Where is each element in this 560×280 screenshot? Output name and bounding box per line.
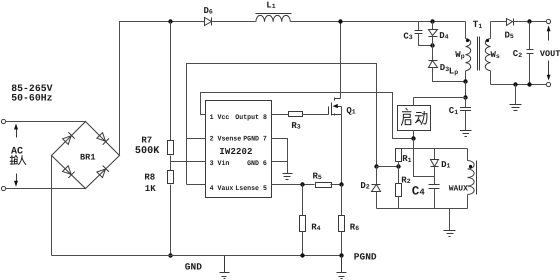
svg-text:50-60Hz: 50-60Hz	[11, 93, 52, 104]
resistor R4	[300, 216, 306, 232]
svg-text:WAUX: WAUX	[449, 184, 468, 193]
svg-text:PGND 7: PGND 7	[243, 136, 267, 144]
ground symbol (GND earth)	[220, 256, 230, 279]
wire: top rail left segment	[120, 21, 205, 23]
transistor Q1 (N-MOSFET)	[328, 107, 330, 115]
svg-text:GND 6: GND 6	[247, 160, 267, 168]
aux winding WAUX	[467, 149, 469, 161]
svg-text:Output 8: Output 8	[235, 114, 267, 122]
wire: C1 node to startup top	[414, 97, 466, 99]
capacitor C2	[529, 22, 531, 50]
svg-text:Lp: Lp	[449, 66, 458, 76]
wire: bottom ground rail	[52, 255, 342, 257]
wire: AC bottom line	[6, 188, 86, 190]
svg-text:1K: 1K	[145, 184, 156, 194]
node: PGND junction	[339, 253, 343, 257]
transformer T1 primary Wp	[465, 22, 467, 39]
node: startup/Vcc junction	[411, 136, 415, 140]
wire: junction down to D1 cathode node	[414, 139, 435, 177]
wire: R7 to R8	[170, 156, 172, 171]
wire: R4 branch	[302, 185, 304, 216]
bridge BR1 diamond	[52, 122, 120, 189]
wire: R4 to bottom rail	[302, 232, 304, 256]
wire: Lp node down to C1 node	[465, 82, 467, 98]
svg-text:D3: D3	[440, 63, 449, 73]
wire: Q1 drain up to top rail	[340, 22, 342, 99]
svg-text:D6: D6	[204, 6, 213, 16]
transformer core	[478, 37, 480, 71]
svg-text:AC: AC	[11, 146, 23, 157]
svg-text:VOUT: VOUT	[540, 49, 560, 59]
wire: bridge - output down to bottom rail	[51, 156, 53, 256]
node: WAUX phase dot	[469, 165, 472, 168]
wire: Q1 source down to Lsense node	[341, 107, 343, 185]
wire: pin 5 Lsense to R5	[272, 184, 315, 186]
diode D5	[507, 19, 514, 26]
diode D3 (points up)	[429, 61, 438, 68]
svg-text:R3: R3	[291, 121, 300, 131]
aux core	[476, 161, 478, 195]
svg-text:D2: D2	[360, 181, 369, 191]
node: R8 bottom rail junction	[168, 253, 172, 257]
svg-text:R8: R8	[144, 173, 155, 183]
wire: startup top to Vcc node	[413, 98, 415, 106]
diode D4 (points down)	[432, 22, 434, 30]
resistor R6	[339, 216, 345, 232]
svg-text:Wp: Wp	[455, 50, 464, 60]
node: C2 bottom junction	[527, 82, 531, 86]
svg-text:500K: 500K	[135, 146, 160, 157]
label 输入 (input)	[10, 155, 26, 164]
bridge diode (bottom-left edge, points SE)	[62, 165, 75, 178]
wire: R6 to PGND	[341, 232, 343, 256]
diode D6	[205, 18, 212, 26]
ground symbol (aux earth)	[449, 209, 451, 231]
wire: pin 8 to R3	[272, 114, 289, 116]
wire: top rail L1 to transformer	[291, 21, 466, 23]
VOUT- terminal	[546, 82, 550, 86]
startup block 启动	[398, 106, 431, 131]
wire: top rail D6 to L1	[212, 21, 256, 23]
svg-text:R6: R6	[350, 222, 359, 232]
svg-text:Lsense 5: Lsense 5	[235, 185, 267, 193]
capacitor C1	[465, 98, 467, 108]
op-amp U1 IW2202 body	[206, 101, 272, 198]
svg-text:R5: R5	[313, 171, 322, 181]
wire: bridge + output up to top rail	[120, 22, 121, 156]
wire: Ws top to D5	[491, 21, 507, 23]
wire: R8 down to bottom rail	[170, 185, 172, 256]
svg-text:4 Vaux: 4 Vaux	[210, 185, 234, 193]
arrow down (AC input marker)	[16, 174, 18, 183]
svg-text:Q1: Q1	[346, 106, 355, 116]
node: C2 top junction	[527, 19, 531, 23]
svg-text:BR1: BR1	[80, 153, 95, 163]
wire: tap to R2	[398, 167, 400, 184]
bridge diode (bottom-right edge, points NE)	[97, 165, 110, 178]
svg-text:R4: R4	[311, 222, 320, 232]
wire: R3 to Q1 gate	[303, 114, 329, 116]
wire: junction to R1/R2 divider tap	[377, 166, 399, 168]
svg-text:T1: T1	[473, 19, 483, 30]
node: R1/R2 tap junction	[396, 164, 400, 168]
AC terminal top	[1, 119, 5, 123]
node: Vsense/D2 junction	[374, 164, 378, 168]
svg-text:C2: C2	[513, 49, 522, 59]
svg-text:R7: R7	[141, 136, 152, 146]
svg-text:1 Vcc: 1 Vcc	[210, 114, 230, 122]
diode D2 (points up)	[376, 167, 378, 185]
node: Ws phase dot	[486, 39, 489, 42]
transformer T1 secondary Ws	[490, 22, 492, 39]
svg-text:D5: D5	[505, 30, 514, 40]
wire: aux return bottom edge	[377, 208, 468, 210]
node: C1 junction	[463, 95, 467, 99]
svg-text:L1: L1	[266, 0, 275, 10]
wire: startup bottom to junction	[413, 131, 415, 139]
wire: Vsense loop (pin2/pin4 up over IC to aux divider)	[187, 64, 377, 185]
wire: D3 anode to Lp bottom node	[433, 68, 466, 82]
wire: R5 to source node	[331, 184, 342, 186]
resistor R3	[289, 112, 303, 117]
wire: divider tap to pin 3 Vin	[171, 161, 206, 163]
node: C3/D4 junction	[430, 43, 434, 47]
wire: rail down to R7	[170, 22, 172, 141]
node: R4 top junction	[300, 182, 304, 186]
diode D1 (points down)	[434, 149, 436, 160]
wire: pin 2 Vsense stub	[187, 138, 206, 140]
node: R4 bottom junction	[300, 253, 304, 257]
ground symbol (secondary earth)	[515, 85, 517, 105]
ground symbol (C1 earth)	[460, 131, 472, 137]
resistor R1	[396, 149, 402, 162]
svg-text:D1: D1	[441, 160, 450, 170]
svg-text:R2: R2	[401, 175, 410, 185]
svg-text:C4: C4	[412, 184, 426, 198]
wire: R1 to tap	[398, 162, 400, 167]
resistor R2	[396, 184, 402, 197]
VOUT+ terminal	[546, 19, 550, 23]
wire: aux top edge	[396, 148, 468, 150]
svg-text:2 Vsense: 2 Vsense	[210, 136, 242, 144]
ground symbol (PGND earth)	[337, 256, 347, 279]
wire: D4 to D3	[432, 37, 434, 61]
capacitor C4	[434, 167, 436, 185]
wire: secondary bottom rail	[491, 84, 547, 86]
wire: pin 6 GND stub	[272, 161, 288, 163]
capacitor C3	[418, 22, 420, 31]
ground symbol (IC pins 6/7)	[283, 174, 293, 180]
arrow up (VOUT marker)	[548, 29, 550, 41]
bridge diode (top-right edge, points SE)	[97, 132, 110, 145]
wire: D5 to VOUT+	[514, 21, 547, 23]
arrow up (AC input marker)	[16, 129, 18, 138]
svg-text:R1: R1	[402, 154, 411, 164]
node: drain rail junction	[338, 19, 342, 23]
resistor R8	[168, 171, 174, 184]
wire: Vcc loop (pin1 over IC to startup node)	[201, 93, 414, 139]
svg-text:D4: D4	[439, 31, 448, 41]
wire: AC top line	[6, 121, 86, 123]
wire: pin 4 Vaux stub	[187, 184, 206, 186]
node: secondary ground junction	[513, 82, 517, 86]
svg-text:C1: C1	[449, 106, 458, 116]
svg-text:IW2202: IW2202	[219, 147, 252, 157]
inductor L1	[256, 15, 290, 21]
node: Wp phase dot	[466, 39, 469, 42]
svg-text:Ws: Ws	[491, 50, 500, 60]
node: clamp rail junction	[430, 19, 434, 23]
svg-text:GND: GND	[185, 261, 202, 272]
svg-text:PGND: PGND	[354, 251, 377, 262]
svg-text:C3: C3	[403, 31, 412, 41]
svg-text:3 Vin: 3 Vin	[210, 159, 230, 168]
node: R6 top junction	[339, 182, 343, 186]
AC terminal bottom	[1, 186, 5, 190]
wire: pin 7 PGND to ground	[272, 139, 288, 174]
arrow down (VOUT marker)	[548, 61, 550, 77]
resistor R5	[316, 183, 332, 188]
node: Lp bottom junction	[463, 79, 467, 83]
node: rail to R7 junction	[168, 19, 172, 23]
wire: R6 branch	[341, 185, 343, 216]
bridge diode (top-left edge, points NE)	[62, 132, 75, 145]
wire: R2 to aux return	[398, 197, 400, 209]
resistor R7	[168, 141, 174, 155]
